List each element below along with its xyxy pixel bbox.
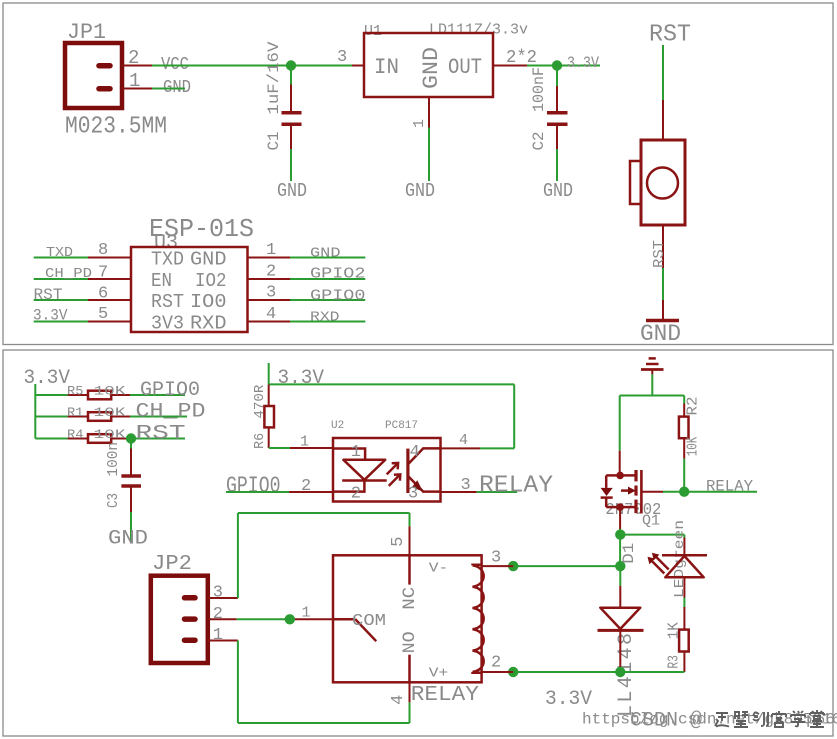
Q1 body diode [601, 475, 621, 507]
JP1 pin 2 [122, 47, 152, 69]
relay pin 3 (V-) [482, 549, 514, 568]
svg-text:M023.5MM: M023.5MM [65, 114, 167, 141]
svg-text:RST: RST [136, 423, 186, 446]
wire to LED branch [620, 535, 684, 538]
svg-text:1: 1 [411, 119, 428, 128]
svg-text:JP2: JP2 [152, 553, 192, 576]
svg-text:GND: GND [310, 247, 341, 262]
svg-text:R3: R3 [666, 655, 683, 669]
U1 pin 3 [337, 48, 364, 67]
junction node 3.3V/C2 [552, 60, 562, 70]
wire Q1 gate to RELAY node [641, 491, 684, 493]
svg-text:Q1: Q1 [642, 514, 660, 530]
svg-text:1uF/16V: 1uF/16V [265, 41, 283, 114]
svg-text:GND: GND [405, 180, 435, 202]
svg-text:RST: RST [151, 291, 184, 313]
U3 pin 2 GPIO2 [248, 263, 366, 283]
module U3 ESP-01S [131, 214, 254, 335]
relay pin 5 lead [389, 526, 410, 555]
svg-text:3.3V: 3.3V [33, 307, 68, 325]
svg-text:U1: U1 [364, 23, 382, 40]
junction node source/LED [615, 529, 625, 539]
diode D1 LL4148 [598, 543, 644, 717]
svg-text:R2: R2 [685, 397, 702, 416]
JP2 pin 2 [208, 605, 237, 624]
relay K1 body [333, 555, 482, 682]
svg-text:C1: C1 [265, 132, 283, 151]
svg-text:2: 2 [301, 477, 311, 496]
connector JP1 [65, 20, 122, 108]
resistor R5 10K [35, 383, 185, 399]
U2 phototransistor [408, 443, 441, 504]
svg-text:10K: 10K [94, 405, 126, 420]
ground symbol RST [646, 319, 679, 323]
svg-text:3: 3 [491, 549, 501, 568]
relay NO contact [400, 631, 420, 682]
svg-text:1: 1 [213, 626, 223, 645]
relay pin 2 (V+) [482, 654, 514, 673]
wire VCC JP1 to C1/U1 [152, 65, 352, 67]
svg-text:COM: COM [352, 612, 386, 631]
supply symbol (inverted earth) [641, 358, 664, 374]
U3 pin 6 RST [34, 285, 132, 305]
svg-text:RST: RST [34, 286, 63, 304]
wire R6 to U2 pin1 [269, 434, 333, 451]
svg-text:5: 5 [98, 305, 108, 324]
resistor R3 1K [666, 607, 689, 672]
svg-text:R4: R4 [67, 427, 84, 442]
watermark hanzi [715, 710, 824, 727]
svg-text:7: 7 [98, 264, 108, 283]
svg-text:10K: 10K [94, 383, 126, 398]
svg-text:RELAY: RELAY [706, 478, 754, 496]
wire button to GND [651, 225, 668, 319]
svg-text:3V3: 3V3 [151, 313, 184, 335]
svg-text:10K: 10K [94, 427, 126, 442]
resistor R4 10K [35, 427, 185, 443]
wire 3.3V stub to rail [268, 363, 270, 384]
wire top rail to pin4 drop [269, 384, 515, 448]
U2 LED [333, 443, 387, 504]
svg-text:1: 1 [302, 605, 311, 622]
LED D2 green [662, 520, 707, 598]
svg-text:1: 1 [300, 434, 309, 451]
wire 3.3V feed vertical [34, 384, 36, 439]
svg-text:2: 2 [128, 47, 139, 69]
svg-text:D1: D1 [620, 543, 638, 564]
svg-text:IO0: IO0 [190, 291, 227, 313]
svg-text:GPIO0: GPIO0 [140, 379, 200, 402]
JP2 pin 3 [208, 584, 238, 603]
svg-text:CH_PD: CH_PD [45, 266, 92, 282]
svg-text:RXD: RXD [310, 311, 340, 326]
svg-text:3.3V: 3.3V [24, 367, 71, 390]
U2 pin 3 wire to RELAY [441, 476, 518, 495]
svg-text:2: 2 [266, 263, 276, 282]
U3 pin 3 GPIO0 [248, 284, 366, 305]
svg-text:RST: RST [649, 22, 691, 49]
svg-text:OUT: OUT [448, 55, 482, 80]
svg-text:GPIO0: GPIO0 [226, 473, 281, 499]
svg-text:6: 6 [98, 285, 108, 304]
svg-text:RXD: RXD [190, 313, 227, 335]
optocoupler U2 PC817 [331, 420, 441, 502]
svg-text:GPIO2: GPIO2 [310, 267, 366, 283]
junction node VCC/C1 [286, 60, 296, 70]
svg-text:R1: R1 [67, 405, 84, 420]
svg-text:EN: EN [151, 270, 172, 292]
svg-text:3: 3 [408, 485, 418, 504]
svg-text:1K: 1K [666, 622, 683, 639]
U2 pin 2 wire [226, 477, 333, 496]
capacitor C1 1uF/16V [265, 41, 302, 181]
svg-text:1: 1 [266, 241, 276, 260]
wire relay V- row [513, 565, 620, 567]
svg-text:1: 1 [129, 70, 140, 92]
wire JP2 pin1 to relay pin4 [238, 641, 410, 724]
svg-text:NC: NC [400, 587, 420, 610]
svg-text:GND: GND [543, 180, 573, 202]
svg-text:3: 3 [213, 584, 223, 603]
svg-text:10K: 10K [685, 437, 702, 457]
svg-text:LD111Z/3.3v: LD111Z/3.3v [429, 22, 528, 39]
wire JP2 pin2 to COM [237, 605, 333, 622]
svg-text:IN: IN [374, 55, 399, 80]
regulator U1 LD1117/3.3v [364, 22, 528, 98]
svg-text:GND: GND [640, 321, 681, 347]
svg-text:GND: GND [277, 180, 307, 202]
U1 pin 1 (GND) [411, 97, 429, 181]
wire RELAY right [684, 491, 757, 493]
svg-text:C2: C2 [530, 132, 548, 151]
svg-text:4: 4 [389, 695, 408, 705]
svg-text:2: 2 [351, 485, 361, 504]
resistor R2 10K [679, 397, 702, 492]
svg-text:2: 2 [491, 654, 501, 673]
U1 pin 2 (OUT) [493, 48, 537, 68]
svg-text:V+: V+ [429, 666, 449, 682]
relay NC contact [400, 555, 420, 610]
wire LED to R3 [683, 598, 685, 608]
connector JP2 [151, 553, 208, 663]
resistor R1 10K [35, 405, 187, 421]
U2 pin 4 stub [441, 432, 481, 449]
LED arrows [648, 553, 669, 574]
svg-text:4: 4 [459, 432, 468, 449]
svg-text:3.3V: 3.3V [545, 688, 592, 711]
wire supply to rail [651, 374, 653, 395]
U3 pin 4 RXD [248, 305, 366, 326]
svg-text:NO: NO [400, 631, 420, 653]
svg-text:R5: R5 [67, 383, 84, 398]
svg-text:4: 4 [410, 443, 420, 462]
junction node RST/C3 [126, 433, 136, 443]
U3 pin 7 CH_PD [34, 264, 131, 283]
capacitor C3 100n [105, 442, 141, 544]
svg-text:470R: 470R [252, 384, 268, 419]
wire RST to button [662, 45, 664, 140]
svg-text:RELAY: RELAY [479, 473, 553, 500]
resistor R6 470R [252, 384, 274, 449]
U3 pin 1 GND [248, 241, 366, 262]
svg-text:CH_PD: CH_PD [136, 401, 206, 424]
relay pin 4 lead [389, 682, 410, 705]
svg-text:GND: GND [190, 249, 227, 271]
svg-text:3: 3 [266, 284, 276, 303]
JP2 pin 1 [208, 626, 238, 645]
wire JP2 pin3 to relay pin5 [238, 513, 410, 598]
svg-text:GPIO0: GPIO0 [310, 289, 366, 305]
wire Q1 source down [619, 507, 621, 566]
svg-text:4: 4 [266, 305, 276, 324]
svg-text:V-: V- [429, 560, 449, 576]
svg-text:GND: GND [419, 47, 444, 89]
junction node COM [285, 614, 295, 624]
junction node V- right / D1 [615, 561, 625, 571]
svg-text:3: 3 [461, 476, 471, 495]
svg-text:RST: RST [651, 240, 668, 268]
U3 pin 5 3.3V [33, 305, 131, 325]
svg-text:RELAY: RELAY [411, 684, 479, 707]
svg-text:8: 8 [98, 241, 108, 260]
svg-text:TXD: TXD [151, 249, 184, 271]
junction node RELAY [679, 487, 689, 497]
svg-text:C3: C3 [105, 493, 122, 508]
svg-text:R6: R6 [252, 433, 268, 449]
U2 LED arrows [387, 463, 401, 486]
svg-text:100nF: 100nF [530, 67, 548, 112]
junction node V+ / D1 bottom [615, 667, 625, 677]
svg-text:2: 2 [213, 605, 223, 624]
capacitor C2 100nF [530, 67, 568, 181]
wire relay V+ row [513, 671, 684, 673]
JP1 pin 1 [122, 70, 152, 92]
svg-text:CSDN @: CSDN @ [630, 710, 702, 733]
wire drain lead [619, 451, 621, 476]
svg-text:IO2: IO2 [195, 270, 227, 292]
svg-text:1: 1 [351, 443, 361, 462]
svg-text:GND: GND [108, 528, 148, 551]
pushbutton S1 (RST) [630, 140, 685, 225]
svg-text:U2: U2 [331, 420, 344, 432]
junction node V- left [508, 561, 518, 571]
relay COM lever [333, 612, 386, 641]
svg-text:3.3V: 3.3V [278, 367, 325, 390]
relay coil [473, 565, 484, 673]
svg-text:TXD: TXD [46, 245, 73, 261]
wire GND stub JP1 [152, 88, 185, 90]
U3 pin 8 TXD [34, 241, 131, 261]
transistor Q1 2N7002 [605, 470, 661, 530]
svg-text:PC817: PC817 [385, 420, 418, 432]
svg-text:3.3V: 3.3V [567, 54, 599, 72]
junction node V+ left [508, 667, 518, 677]
svg-text:5: 5 [389, 537, 408, 547]
svg-text:3: 3 [337, 48, 347, 67]
wire OUT to 3.3V [527, 65, 600, 67]
svg-text:100n: 100n [105, 442, 122, 477]
wire Q1 top rail [620, 396, 685, 451]
